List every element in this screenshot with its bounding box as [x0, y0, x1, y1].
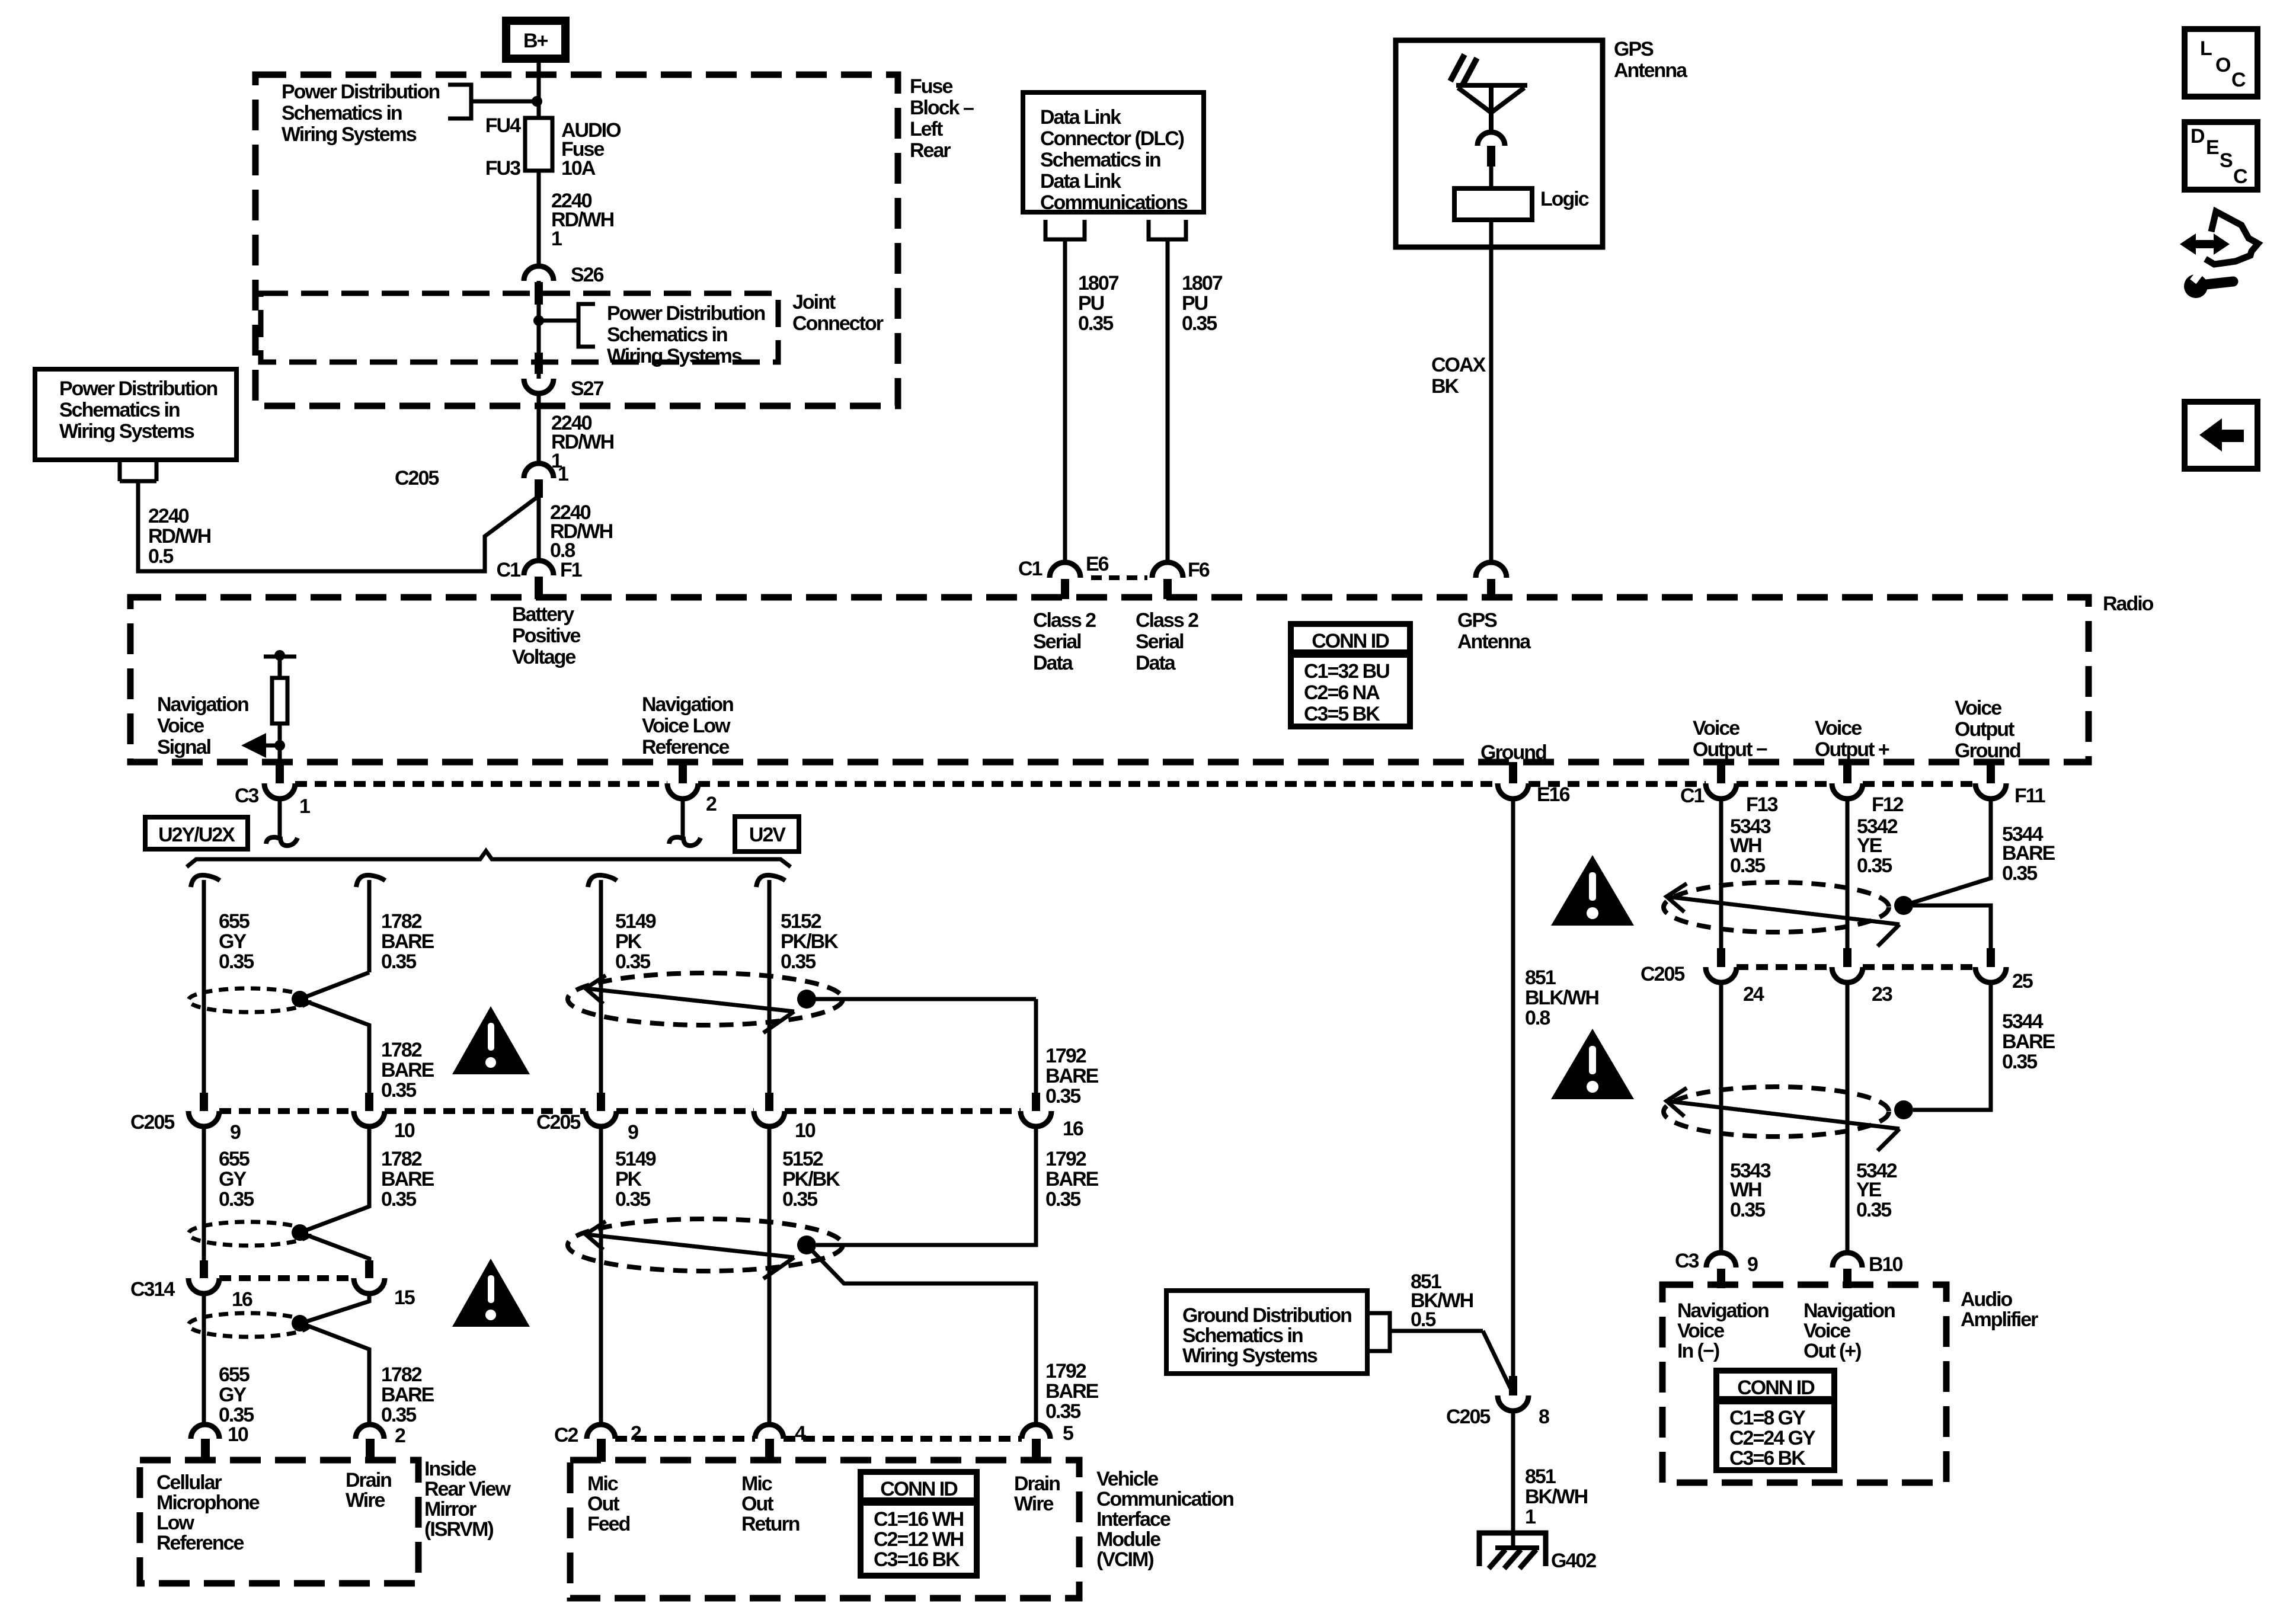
svg-text:Power Distribution: Power Distribution: [607, 302, 765, 325]
svg-text:Drain: Drain: [346, 1469, 391, 1491]
svg-text:Data: Data: [1136, 652, 1176, 674]
svg-text:PU: PU: [1078, 292, 1104, 315]
svg-text:COAX: COAX: [1431, 354, 1486, 376]
svg-text:9: 9: [230, 1121, 241, 1144]
svg-text:C2=6 NA: C2=6 NA: [1304, 681, 1380, 704]
svg-text:CONN ID: CONN ID: [1312, 630, 1389, 652]
svg-text:In (−): In (−): [1677, 1340, 1719, 1362]
svg-text:5149: 5149: [615, 910, 656, 933]
svg-text:BARE: BARE: [2002, 1030, 2055, 1053]
svg-text:Wire: Wire: [1014, 1493, 1053, 1515]
svg-text:Voice Low: Voice Low: [642, 715, 731, 737]
svg-text:16: 16: [232, 1288, 252, 1311]
svg-text:5: 5: [1063, 1422, 1073, 1445]
svg-text:S27: S27: [571, 377, 604, 400]
svg-text:(VCIM): (VCIM): [1096, 1548, 1153, 1571]
svg-text:PU: PU: [1182, 292, 1208, 315]
svg-text:15: 15: [394, 1286, 415, 1309]
svg-text:Output −: Output −: [1693, 738, 1767, 761]
svg-text:PK/BK: PK/BK: [781, 930, 839, 953]
svg-text:C1: C1: [497, 559, 521, 581]
svg-text:Rear: Rear: [910, 139, 951, 162]
svg-text:Navigation: Navigation: [1803, 1299, 1895, 1322]
svg-text:Schematics in: Schematics in: [1182, 1324, 1303, 1347]
svg-text:C205: C205: [130, 1111, 174, 1134]
svg-text:Navigation: Navigation: [1677, 1299, 1769, 1322]
svg-text:9: 9: [628, 1121, 638, 1144]
svg-text:C314: C314: [130, 1278, 175, 1301]
svg-text:Out: Out: [741, 1493, 773, 1515]
svg-text:Voice: Voice: [1803, 1320, 1850, 1342]
svg-text:B10: B10: [1869, 1253, 1902, 1276]
svg-text:1: 1: [558, 463, 568, 485]
svg-text:BARE: BARE: [381, 1059, 434, 1081]
svg-text:0.35: 0.35: [615, 950, 650, 973]
svg-text:BARE: BARE: [1045, 1168, 1099, 1190]
svg-text:23: 23: [1872, 983, 1892, 1006]
svg-text:Out (+): Out (+): [1803, 1340, 1861, 1362]
svg-text:0.35: 0.35: [381, 1404, 416, 1426]
svg-text:Vehicle: Vehicle: [1096, 1468, 1158, 1490]
svg-text:1: 1: [1525, 1506, 1536, 1528]
svg-text:0.35: 0.35: [1078, 312, 1113, 335]
svg-text:Connector: Connector: [792, 312, 884, 335]
svg-text:851: 851: [1525, 966, 1556, 989]
svg-text:1792: 1792: [1045, 1045, 1086, 1067]
svg-text:Output +: Output +: [1815, 738, 1889, 761]
svg-text:BARE: BARE: [381, 1384, 434, 1406]
svg-text:Ground: Ground: [1480, 741, 1546, 764]
svg-text:C2: C2: [554, 1424, 578, 1446]
svg-text:Wiring Systems: Wiring Systems: [607, 345, 742, 367]
svg-text:CONN ID: CONN ID: [1737, 1377, 1815, 1399]
svg-text:Antenna: Antenna: [1614, 59, 1688, 82]
svg-text:2: 2: [395, 1425, 405, 1447]
svg-text:Connector (DLC): Connector (DLC): [1040, 127, 1184, 150]
svg-text:Class 2: Class 2: [1136, 609, 1198, 632]
svg-text:Mirror: Mirror: [424, 1498, 477, 1521]
svg-text:C2=24 GY: C2=24 GY: [1729, 1427, 1816, 1449]
svg-text:Reference: Reference: [642, 736, 730, 758]
svg-text:Voice: Voice: [1955, 697, 2001, 719]
svg-text:C1=16 WH: C1=16 WH: [874, 1508, 964, 1531]
svg-text:10: 10: [394, 1119, 415, 1142]
svg-text:0.35: 0.35: [2002, 862, 2037, 885]
svg-text:Left: Left: [910, 118, 943, 140]
svg-text:C3=5 BK: C3=5 BK: [1304, 703, 1380, 725]
svg-text:B+: B+: [523, 30, 548, 52]
svg-text:C205: C205: [395, 467, 439, 489]
svg-text:Radio: Radio: [2103, 593, 2154, 615]
svg-text:C3=16 BK: C3=16 BK: [874, 1548, 960, 1571]
svg-text:GY: GY: [219, 1384, 247, 1406]
svg-text:U2Y/U2X: U2Y/U2X: [158, 824, 235, 846]
svg-text:C1: C1: [1680, 785, 1705, 807]
svg-text:C205: C205: [1641, 963, 1684, 985]
svg-text:F11: F11: [2014, 785, 2045, 807]
svg-text:BARE: BARE: [381, 930, 434, 953]
svg-text:U2V: U2V: [749, 824, 786, 846]
svg-text:1807: 1807: [1182, 272, 1223, 295]
svg-text:Voice: Voice: [1815, 717, 1862, 740]
svg-text:Feed: Feed: [587, 1513, 630, 1535]
svg-text:Navigation: Navigation: [157, 693, 248, 716]
svg-text:24: 24: [1743, 983, 1764, 1006]
svg-text:10: 10: [228, 1423, 248, 1446]
svg-text:BK: BK: [1431, 375, 1460, 398]
svg-text:Joint: Joint: [792, 291, 836, 313]
svg-text:1: 1: [551, 228, 562, 250]
svg-text:Power Distribution: Power Distribution: [282, 81, 439, 103]
svg-text:C3: C3: [235, 785, 259, 807]
svg-text:C1: C1: [1018, 558, 1043, 580]
svg-text:Return: Return: [741, 1513, 800, 1535]
svg-text:PK: PK: [615, 1168, 642, 1190]
svg-text:Logic: Logic: [1540, 188, 1589, 210]
svg-text:1807: 1807: [1078, 272, 1119, 295]
svg-text:Data Link: Data Link: [1040, 106, 1121, 129]
svg-text:C: C: [2231, 69, 2246, 91]
svg-text:Ground Distribution: Ground Distribution: [1182, 1304, 1351, 1327]
svg-text:Rear View: Rear View: [424, 1478, 511, 1500]
svg-text:655: 655: [219, 1148, 250, 1170]
svg-text:8: 8: [1539, 1406, 1549, 1428]
svg-text:Cellular: Cellular: [156, 1471, 222, 1494]
svg-text:G402: G402: [1551, 1550, 1596, 1572]
svg-text:2: 2: [706, 793, 717, 815]
svg-text:D: D: [2191, 125, 2205, 148]
svg-text:Data: Data: [1033, 652, 1074, 674]
svg-text:1782: 1782: [381, 910, 422, 933]
svg-text:Voice: Voice: [1693, 717, 1739, 740]
svg-text:Inside: Inside: [424, 1458, 476, 1480]
svg-text:2: 2: [631, 1422, 641, 1445]
svg-text:BK/WH: BK/WH: [1525, 1486, 1588, 1508]
svg-text:S: S: [2220, 149, 2233, 172]
svg-text:E: E: [2206, 136, 2219, 159]
svg-text:Audio: Audio: [1961, 1288, 2013, 1311]
svg-text:E16: E16: [1537, 783, 1570, 806]
svg-text:C205: C205: [1446, 1406, 1490, 1428]
svg-text:0.35: 0.35: [381, 1079, 416, 1102]
svg-text:BARE: BARE: [1045, 1065, 1099, 1087]
svg-text:0.35: 0.35: [381, 1188, 416, 1211]
svg-text:0.35: 0.35: [782, 1188, 817, 1211]
svg-text:0.35: 0.35: [2002, 1051, 2037, 1073]
svg-text:25: 25: [2012, 970, 2033, 993]
svg-text:F13: F13: [1746, 793, 1778, 816]
svg-text:Block –: Block –: [910, 97, 974, 119]
svg-text:1792: 1792: [1045, 1148, 1086, 1170]
svg-text:Microphone: Microphone: [156, 1491, 260, 1514]
svg-text:0.35: 0.35: [1045, 1188, 1080, 1211]
svg-text:655: 655: [219, 910, 250, 933]
svg-text:Wiring Systems: Wiring Systems: [59, 420, 194, 443]
svg-text:Mic: Mic: [587, 1473, 618, 1495]
svg-text:Reference: Reference: [156, 1532, 244, 1554]
svg-text:Antenna: Antenna: [1457, 630, 1531, 653]
svg-text:S26: S26: [571, 264, 604, 286]
svg-text:1792: 1792: [1045, 1360, 1086, 1382]
svg-text:C: C: [2233, 165, 2247, 188]
svg-text:O: O: [2215, 54, 2231, 76]
svg-text:0.35: 0.35: [1045, 1400, 1080, 1423]
svg-text:1782: 1782: [381, 1039, 422, 1061]
svg-text:GPS: GPS: [1457, 609, 1497, 632]
svg-text:0.35: 0.35: [1856, 1199, 1891, 1221]
svg-text:Signal: Signal: [157, 736, 211, 758]
svg-text:CONN ID: CONN ID: [880, 1478, 958, 1500]
svg-text:0.35: 0.35: [219, 1188, 254, 1211]
svg-text:Mic: Mic: [741, 1473, 772, 1495]
svg-text:Navigation: Navigation: [642, 693, 733, 716]
svg-text:RD/WH: RD/WH: [148, 525, 211, 548]
svg-text:Voice: Voice: [157, 715, 204, 737]
svg-text:0.35: 0.35: [615, 1188, 650, 1211]
svg-text:BARE: BARE: [1045, 1380, 1099, 1403]
svg-text:Drain: Drain: [1014, 1473, 1060, 1495]
svg-text:WH: WH: [1730, 1179, 1761, 1201]
svg-text:Module: Module: [1096, 1528, 1160, 1551]
svg-text:4: 4: [795, 1422, 806, 1445]
svg-text:Voltage: Voltage: [512, 646, 575, 668]
svg-text:Ground: Ground: [1955, 740, 2020, 762]
svg-text:(ISRVM): (ISRVM): [424, 1518, 493, 1541]
svg-text:5152: 5152: [782, 1148, 823, 1170]
svg-text:1782: 1782: [381, 1363, 422, 1386]
svg-text:YE: YE: [1856, 1179, 1882, 1201]
svg-text:Class 2: Class 2: [1033, 609, 1096, 632]
svg-text:C1=32 BU: C1=32 BU: [1304, 660, 1389, 683]
svg-text:0.5: 0.5: [148, 545, 173, 568]
svg-text:C3=6 BK: C3=6 BK: [1729, 1447, 1806, 1470]
svg-text:FU3: FU3: [485, 157, 520, 180]
svg-text:10: 10: [795, 1119, 816, 1142]
svg-text:Amplifier: Amplifier: [1961, 1308, 2038, 1331]
svg-text:Low: Low: [156, 1512, 195, 1534]
svg-text:0.35: 0.35: [1857, 854, 1892, 877]
svg-text:C1=8 GY: C1=8 GY: [1729, 1407, 1806, 1429]
svg-text:E6: E6: [1086, 553, 1109, 575]
svg-text:F1: F1: [560, 559, 582, 581]
svg-text:Wiring Systems: Wiring Systems: [282, 123, 417, 146]
svg-text:PK/BK: PK/BK: [782, 1168, 840, 1190]
svg-text:1: 1: [299, 795, 310, 818]
svg-text:BARE: BARE: [2002, 842, 2055, 865]
svg-text:GY: GY: [219, 1168, 247, 1190]
svg-text:655: 655: [219, 1363, 250, 1386]
svg-text:GPS: GPS: [1614, 38, 1654, 60]
svg-text:5344: 5344: [2002, 1010, 2044, 1033]
svg-text:16: 16: [1063, 1118, 1083, 1140]
svg-text:Data Link: Data Link: [1040, 170, 1121, 193]
svg-text:YE: YE: [1857, 834, 1882, 857]
svg-text:GY: GY: [219, 930, 247, 953]
svg-text:0.35: 0.35: [219, 950, 254, 973]
svg-text:0.5: 0.5: [1411, 1308, 1435, 1331]
svg-text:BLK/WH: BLK/WH: [1525, 987, 1598, 1009]
svg-text:F12: F12: [1872, 793, 1904, 816]
svg-text:0.8: 0.8: [1525, 1007, 1550, 1029]
svg-text:Power Distribution: Power Distribution: [59, 377, 217, 400]
svg-text:0.35: 0.35: [1182, 312, 1217, 335]
svg-text:Interface: Interface: [1096, 1508, 1171, 1531]
svg-text:Schematics in: Schematics in: [607, 324, 727, 346]
svg-text:Schematics in: Schematics in: [1040, 149, 1160, 171]
svg-text:0.35: 0.35: [781, 950, 816, 973]
svg-text:5152: 5152: [781, 910, 821, 933]
svg-text:Out: Out: [587, 1493, 619, 1515]
svg-text:Positive: Positive: [512, 625, 580, 647]
svg-text:C3: C3: [1675, 1250, 1699, 1272]
svg-text:1782: 1782: [381, 1148, 422, 1170]
svg-text:Serial: Serial: [1033, 630, 1081, 653]
svg-text:Voice: Voice: [1677, 1320, 1724, 1342]
svg-text:Schematics in: Schematics in: [282, 102, 402, 124]
svg-text:2240: 2240: [148, 505, 189, 527]
svg-text:Schematics in: Schematics in: [59, 399, 180, 421]
svg-text:5149: 5149: [615, 1148, 656, 1170]
svg-text:9: 9: [1747, 1253, 1758, 1276]
svg-text:Wiring Systems: Wiring Systems: [1182, 1345, 1318, 1367]
svg-text:Serial: Serial: [1136, 630, 1184, 653]
svg-text:0.35: 0.35: [381, 950, 416, 973]
svg-text:851: 851: [1525, 1465, 1556, 1488]
svg-text:C2=12 WH: C2=12 WH: [874, 1528, 964, 1551]
svg-text:F6: F6: [1188, 559, 1210, 581]
svg-text:0.35: 0.35: [1730, 1199, 1765, 1221]
svg-text:Battery: Battery: [512, 603, 574, 626]
svg-text:L: L: [2200, 37, 2212, 60]
svg-text:C205: C205: [536, 1111, 580, 1134]
svg-text:WH: WH: [1730, 834, 1761, 857]
svg-text:Fuse: Fuse: [910, 75, 952, 98]
svg-text:Wire: Wire: [346, 1489, 385, 1512]
svg-text:0.35: 0.35: [1045, 1085, 1080, 1108]
svg-text:Communications: Communications: [1040, 191, 1188, 214]
svg-text:10A: 10A: [561, 157, 596, 180]
svg-text:FU4: FU4: [485, 114, 521, 137]
svg-text:Output: Output: [1955, 718, 2014, 741]
svg-text:PK: PK: [615, 930, 642, 953]
svg-text:BARE: BARE: [381, 1168, 434, 1190]
svg-text:Communication: Communication: [1096, 1488, 1233, 1510]
svg-text:0.35: 0.35: [1730, 854, 1765, 877]
